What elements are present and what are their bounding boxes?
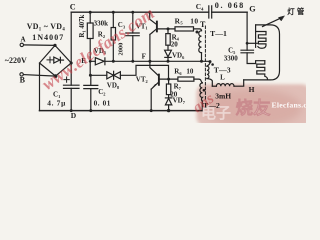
svg-text:~220V: ~220V [5,56,27,65]
wire bridge left vertex down to bottom rail [39,63,41,111]
wire terminal A to bridge top [23,44,55,47]
inductor L coil [216,84,234,87]
svg-text:1N4007: 1N4007 [32,33,64,42]
svg-text:烧友: 烧友 [236,98,271,118]
junction dot rail C2 [89,109,92,112]
resistor R1 leads [89,12,91,61]
transistor VT1 emitter lead [150,29,156,34]
winding polarity dot T-1 [196,31,199,34]
diode VD5 triangle [95,58,104,65]
junction dot F wire VD6 [167,60,170,63]
wire C5 bottom lead and corner [247,53,256,64]
transistor VT1 emitter arrow [150,31,154,35]
wire T-3 to L coil [212,85,216,87]
wire T-2 bottom to rail [201,101,203,111]
svg-text:4. 7μ: 4. 7μ [47,99,66,108]
diode VD6 cathode bar [165,56,171,58]
wire C1 top lead [70,63,72,85]
junction dot rail VT1 [148,11,151,14]
svg-text:T: T [200,20,206,29]
transformer winding T-2 [200,83,202,101]
leader arrow line to lamp label [263,18,281,26]
transistor VT2 base bar [158,75,160,85]
junction dot VT2 base R7 [167,78,170,81]
svg-text:20: 20 [171,41,179,49]
terminal A circle [20,43,23,46]
junction dot F wire C3 [131,60,134,63]
diac center bar [113,71,115,79]
wire T-3 bottom to L wire [207,79,212,87]
capacitor C5 plates [241,50,254,53]
transformer core dashed line [204,26,206,100]
transistor VT1 base bar [156,22,158,32]
winding polarity dot T-3 [211,63,214,66]
resistor R5 box [175,27,194,31]
wire top rail right segment [212,11,247,13]
svg-text:B: B [20,76,26,85]
svg-text:R1 407k: R1 407k [79,14,86,37]
wire T-1 bottom to F node [201,53,203,62]
svg-text:0. 068: 0. 068 [215,1,245,10]
wire rail drop to C5 [246,12,248,50]
junction dot G pin [246,42,249,45]
svg-text:VD1 ~ VD4: VD1 ~ VD4 [27,22,66,33]
junction dot bridge top [53,44,56,47]
wire R6 to T-2 top [194,79,202,83]
junction dot F wire VT [148,60,151,63]
transistor VT1 collector lead [150,12,157,24]
capacitor C3 leads [132,12,134,61]
wire VT1 base to R5 [158,28,175,30]
bridge internal diode triangle [54,57,60,63]
bridge internal plus sign [47,57,53,63]
junction dot rail R2 [112,11,115,14]
bridge internal diode bar [59,57,61,63]
bridge internal diode lead right [60,59,63,61]
svg-text:L: L [220,74,225,82]
transistor VT2 collector lead [150,61,158,75]
wire R7 to VD7 [168,95,170,98]
resistor R7 lead [168,79,170,84]
wire diac junction to C2 [90,75,92,85]
resistor R4 box [166,34,170,46]
svg-text:0. 01: 0. 01 [94,99,111,107]
wire diac right lead to VT2 base path [120,65,168,79]
junction dot bridge bottom [54,74,58,78]
junction dot rail VD7 [167,109,170,112]
svg-text:电子: 电子 [201,104,231,122]
transformer winding T-3 [207,66,209,78]
wire lamp filament H top pin [256,61,265,64]
junction dot rail C3 [131,11,134,14]
diode VD6 triangle [165,50,172,57]
junction dot rail VT2 emitter [150,109,153,112]
wire VT2 emitter down to bottom rail [150,89,152,110]
junction dot bridge right C1 [70,62,73,65]
leader arrowhead [278,16,284,21]
svg-text:3300: 3300 [224,55,239,63]
wire C2 bottom to rail [90,89,92,111]
junction dot E node [89,60,92,63]
wire G pin into lamp [247,42,257,44]
svg-text:A: A [21,35,26,43]
junction dot F wire R2 [112,60,115,63]
resistor R1 box [87,23,93,39]
capacitor C2 plates [84,85,98,88]
resistor R4 lead from VT1 base junction [167,29,169,34]
wire bottom rail [40,110,203,112]
wire R5 to T-1 top [194,29,202,31]
capacitor C1 plates [64,85,80,88]
bridge rectifier diamond outline [40,45,72,76]
diode VD5 cathode bar [104,58,106,65]
watermark stamp inner shade [202,89,302,127]
capacitor C4 plates [209,6,212,18]
transformer winding T-1 [199,31,202,53]
wire top rail left segment [71,11,209,13]
winding polarity dot T-2 [203,89,206,92]
diode VD7 cathode bar [165,97,171,99]
wire E node down to diac junction [89,61,91,75]
resistor R6 box [178,77,194,81]
svg-text:G: G [249,5,256,14]
lamp filament H zigzag [257,61,268,80]
terminal B circle [20,73,23,76]
wire VT2 base to R6 [160,78,178,80]
watermark pink stamp block [197,84,311,126]
svg-text:F: F [142,52,146,60]
svg-text:330k: 330k [94,19,109,27]
C1 polarity plus sign [64,77,69,82]
svg-text:R6 10: R6 10 [174,68,194,76]
capacitor C3 plates [126,33,139,36]
wire terminal B to bridge bottom [23,75,55,77]
wire L to lamp filament H pin [234,80,244,86]
wire VD7 to bottom rail [168,105,170,111]
svg-text:T—1: T—1 [210,29,227,38]
wire VD6 to F node [167,57,169,61]
junction dot diac branch [89,74,92,77]
diac VD bidirectional triangles [107,72,121,79]
wire F node bend into T-3 top [207,61,210,66]
lamp tube outline [244,25,280,80]
svg-text:Elecfans.com: Elecfans.com [272,100,307,109]
wire DC+ drop from rail to bridge right vertex [70,12,72,63]
wire node E-F horizontal [90,60,210,62]
junction dot VT1 base R4 [167,27,170,30]
wire VT1 emitter down to F node [149,34,151,61]
junction dot F wire T-1 [200,60,203,63]
wire R4 to VD6 [167,45,169,50]
wire C1 bottom to rail [70,88,72,110]
resistor R2 box [111,28,115,41]
svg-text:C: C [70,2,76,11]
junction dot F wire T-3 bend [209,60,212,63]
lamp left support bar [255,25,257,47]
transistor VT2 emitter lead [151,83,158,90]
resistor R7 box [166,84,170,95]
lamp filament G zigzag [256,32,266,49]
svg-text:D: D [71,111,77,120]
svg-text:灯管: 灯管 [287,7,306,16]
resistor R2 leads [112,12,114,61]
transistor VT2 emitter arrow [151,84,155,89]
paper background [0,0,306,123]
junction dot rail C1 [70,109,73,112]
diode VD7 triangle [165,98,171,105]
junction dot rail R1 [89,11,92,14]
wire diac left lead [90,74,107,76]
